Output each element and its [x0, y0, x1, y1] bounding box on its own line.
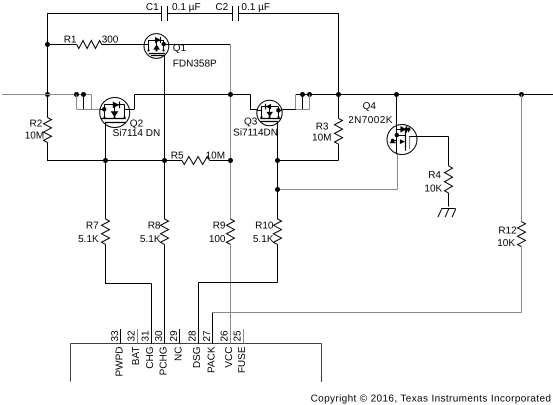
svg-text:10K: 10K [497, 238, 515, 249]
node Q2 source stub 1 [74, 92, 79, 97]
pin 29 NC [169, 329, 185, 361]
wire top rail right segment [239, 13, 339, 15]
svg-text:CHG: CHG [145, 346, 156, 368]
svg-text:5.1K: 5.1K [253, 234, 274, 245]
svg-text:10M: 10M [25, 131, 44, 142]
node Q3 source stub 1 [300, 92, 305, 97]
resistor R2 [25, 95, 52, 161]
pin 32 BAT [127, 329, 143, 365]
node Q3-R3 junction [275, 158, 280, 163]
wire R3 bottom net [278, 144, 339, 160]
svg-text:5.1K: 5.1K [140, 234, 161, 245]
svg-text:R12: R12 [498, 226, 517, 237]
pin 26 VCC [220, 329, 236, 368]
svg-text:R2: R2 [30, 119, 43, 130]
node Q3 source stub 2 [307, 92, 312, 97]
svg-text:C1: C1 [146, 2, 159, 13]
svg-text:DSG: DSG [192, 346, 203, 368]
resistor R10 [253, 219, 282, 245]
node R12 junction [519, 92, 524, 97]
svg-text:R4: R4 [428, 170, 441, 181]
resistor R1 [47, 35, 144, 49]
node Q2 source stub 2 [81, 92, 86, 97]
wire Q2 gate down [105, 128, 107, 161]
svg-text:R8: R8 [148, 221, 161, 232]
pin 30 PCHG [154, 329, 170, 375]
resistor R12 [497, 95, 525, 313]
wire bus right [310, 94, 553, 96]
svg-text:R1: R1 [64, 35, 77, 46]
transistor Q3 [233, 100, 282, 138]
svg-text:2N7002K: 2N7002K [348, 115, 393, 126]
resistor R7 [78, 161, 109, 246]
capacitor C1 [146, 2, 201, 21]
svg-text:33: 33 [110, 330, 121, 342]
wire top rail drop to bus [338, 13, 340, 95]
svg-text:28: 28 [188, 330, 199, 342]
svg-text:C2: C2 [215, 2, 228, 13]
resistor R9 [209, 219, 235, 343]
pin 28 DSG [188, 329, 204, 368]
svg-text:VCC: VCC [224, 347, 235, 368]
transistor Q2 [100, 98, 161, 140]
svg-text:0.1 µF: 0.1 µF [172, 2, 201, 13]
pin 25 FUSE [233, 329, 249, 373]
wire Q3 triple source stubs [282, 95, 309, 110]
node bus-left junction [45, 92, 50, 97]
wire Q4 gate to R4 [417, 136, 449, 165]
wire VCC column grey upper [230, 44, 232, 219]
wire R12 to PACK pin [212, 313, 521, 344]
svg-text:R7: R7 [86, 221, 99, 232]
svg-text:Q4: Q4 [363, 101, 377, 112]
svg-text:31: 31 [141, 330, 152, 342]
svg-text:10K: 10K [424, 184, 442, 195]
svg-text:Si7114 DN: Si7114 DN [113, 128, 161, 139]
node Q1 gate junction [162, 158, 167, 163]
svg-text:25: 25 [233, 330, 244, 342]
wire lower net y160 [47, 160, 182, 162]
wire Q2 drain to mid bus [130, 95, 251, 110]
wire bus drop to Q3 drain [251, 95, 257, 110]
svg-text:Copyright © 2016, Texas Instru: Copyright © 2016, Texas Instruments Inco… [311, 394, 552, 405]
resistor R4 [424, 166, 452, 207]
svg-text:NC: NC [174, 347, 185, 361]
svg-text:29: 29 [169, 330, 180, 342]
svg-text:100: 100 [209, 234, 226, 245]
capacitor C2 [215, 2, 270, 21]
node Q2 gate junction [103, 158, 108, 163]
svg-text:0.1 µF: 0.1 µF [241, 2, 270, 13]
svg-text:5.1K: 5.1K [78, 234, 99, 245]
svg-text:PWPD: PWPD [114, 347, 125, 377]
resistor R8 [140, 161, 169, 344]
svg-text:26: 26 [220, 330, 231, 342]
svg-text:30: 30 [154, 330, 165, 342]
node VCC-bus junction [228, 92, 233, 97]
pin 33 PWPD [110, 329, 126, 377]
wire R10 to DSG pin [198, 244, 277, 343]
svg-text:32: 32 [127, 330, 138, 342]
svg-text:27: 27 [202, 330, 213, 342]
node R5-VCC junction [228, 158, 233, 163]
pin 31 CHG [141, 329, 157, 369]
wire Q4 drain down [396, 95, 398, 126]
svg-text:FDN358P: FDN358P [173, 59, 217, 70]
svg-text:R5: R5 [171, 151, 184, 162]
node Q4 source junction [275, 187, 280, 192]
pin 27 PACK [202, 329, 218, 373]
svg-text:10M: 10M [206, 151, 225, 162]
node R1 junction [45, 42, 50, 47]
svg-text:10M: 10M [312, 133, 331, 144]
wire top rail left segment [47, 13, 162, 15]
wire Q4 source grey [278, 155, 398, 190]
wire Q3 gate down [277, 126, 279, 161]
svg-text:BAT: BAT [131, 347, 142, 366]
svg-text:FUSE: FUSE [237, 346, 248, 373]
svg-text:PCHG: PCHG [159, 346, 170, 375]
wire R7 to CHG pin [105, 244, 152, 343]
transistor Q1 [144, 34, 217, 70]
wire left vertical [47, 13, 49, 95]
svg-text:Q3: Q3 [244, 117, 258, 128]
resistor R3 [312, 95, 342, 145]
resistor R5 [171, 151, 230, 165]
wire Q1 right to VCC column [169, 44, 230, 46]
svg-text:300: 300 [102, 35, 119, 46]
svg-text:Si7114DN: Si7114DN [233, 128, 278, 139]
svg-text:R3: R3 [316, 122, 329, 133]
svg-text:R9: R9 [213, 221, 226, 232]
wire Q2 triple source stubs [77, 95, 100, 110]
connector outline [71, 343, 322, 382]
wire top rail middle segment [168, 13, 233, 15]
ground chassis symbol [438, 209, 456, 218]
node rail-bus junction [336, 92, 341, 97]
wire Q3 column to R10 [277, 161, 279, 220]
node Q4 drain junction [394, 92, 399, 97]
svg-text:PACK: PACK [206, 346, 217, 373]
svg-text:R10: R10 [255, 221, 274, 232]
wire bus left grey (PACK- net) [2, 94, 91, 96]
wire Q1 gate down [164, 57, 166, 161]
transistor Q4 [348, 101, 417, 155]
